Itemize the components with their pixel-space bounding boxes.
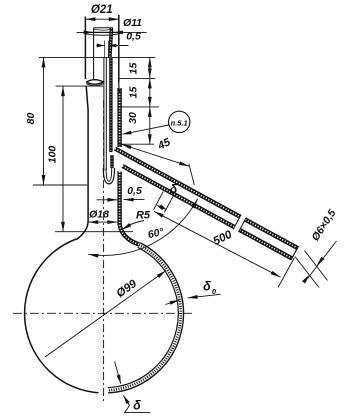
delta bottom arrow from above: [117, 375, 121, 384]
extension line at socket shoulder y=57: [39, 56, 155, 58]
socket top rim ellipse: [85, 34, 118, 35]
svg-text:15: 15: [128, 63, 140, 75]
svg-text:п.5.1: п.5.1: [171, 119, 188, 128]
side tube end face: [291, 246, 299, 260]
svg-text:Ø11: Ø11: [123, 17, 142, 29]
extension line y=144: [118, 143, 155, 145]
side tube lower wall (hatched), before break: [122, 166, 234, 227]
svg-text:δ: δ: [203, 280, 211, 294]
extension line y=107: [119, 106, 160, 108]
svg-text:15: 15: [128, 87, 140, 99]
arrow 500 left: [154, 211, 164, 217]
side tube upper wall (hatched), after break: [245, 220, 297, 248]
arrow 0,5 left: [97, 44, 105, 48]
delta bottom extension line: [115, 362, 121, 384]
arrow 45 left: [122, 144, 132, 149]
leader delta0 right: [188, 294, 221, 298]
delta arrow left: [156, 205, 164, 211]
inner tube lower right wall (hatched): [109, 57, 112, 152]
inner tube upper left wall: [93, 28, 95, 79]
dim line phi21: [85, 18, 118, 20]
hidden narrow tube wall left: [104, 41, 106, 58]
leader line p.5.1: [125, 125, 169, 134]
socket outer wall right: [118, 15, 120, 82]
arrow phi99: [157, 271, 166, 279]
inner tube top rim ellipse: [94, 29, 113, 30]
dim tail phi11 left: [77, 31, 94, 33]
delta extension line 1: [154, 192, 164, 210]
arrow 15 second top: [148, 78, 152, 88]
arrow 0,5 neck: [124, 198, 134, 202]
extension line y=232: [55, 231, 133, 233]
arrow 80 top: [42, 57, 46, 67]
arrow 60 arc top: [191, 199, 197, 209]
inner tube top rim: [94, 27, 113, 29]
socket bottom rim (lens): [86, 80, 103, 85]
svg-text:80: 80: [25, 113, 37, 125]
delta arrow right: [159, 204, 167, 210]
extension line 500 right: [278, 258, 295, 288]
flask bulb outline (left/bottom, outside view): [25, 239, 99, 393]
arrow 30 top: [148, 107, 152, 117]
arrow phi18 right: [107, 220, 117, 224]
leader delta0 left: [166, 300, 180, 305]
dim tail 0,5 right: [109, 45, 129, 47]
callout circle p.5.1: [169, 111, 190, 132]
phi6 extension line a: [295, 257, 319, 288]
svg-text:30: 30: [127, 112, 139, 124]
inner tube open bottom end (inner U): [106, 168, 112, 181]
phi6 dim line: [308, 241, 337, 279]
extension line 45 right (oblique): [189, 164, 194, 185]
arrow right at inner wall: [107, 198, 117, 202]
extension line y=78: [120, 77, 156, 79]
arrow phi18 left: [88, 220, 98, 224]
arrow 30 bottom: [148, 134, 152, 144]
phi6 extension line b: [305, 251, 328, 281]
svg-text:0,5: 0,5: [126, 31, 141, 43]
arrow delta0 left: [170, 300, 180, 305]
socket top rim: [85, 31, 118, 33]
phi6 arrow lower: [302, 275, 310, 284]
tube break edge 1: [233, 215, 241, 230]
arrow 0,5 right: [109, 44, 117, 48]
arrow p.5.1 leader: [122, 131, 132, 135]
socket outer wall left: [84, 17, 86, 80]
dim line phi18: [88, 221, 117, 223]
svg-text:Ø21: Ø21: [91, 4, 113, 16]
arrow R5: [122, 223, 132, 230]
neck right wall lower segment curving into bulb shoulder: [120, 172, 140, 245]
60 degree dimension arc: [88, 199, 197, 256]
arrow delta0 right: [188, 295, 198, 299]
leader 0,5 neck: [124, 199, 145, 201]
side tube lower wall (hatched), after break: [240, 230, 292, 259]
side tube upper wall (hatched), before break: [115, 149, 240, 217]
socket to neck transition right: [118, 82, 121, 92]
arrow 15 second bottom: [148, 97, 152, 107]
arrow 15 top: [148, 57, 152, 67]
extension line y=185: [33, 184, 87, 186]
arrow 500 right: [271, 271, 281, 277]
arrow line at neck inner wall: [97, 199, 118, 201]
svg-text:100: 100: [47, 146, 59, 164]
svg-text:0,5: 0,5: [127, 185, 142, 197]
arrow 80 bottom: [42, 175, 46, 185]
svg-text:R5: R5: [136, 210, 151, 222]
horizontal centerline of bulb: [13, 312, 193, 314]
neck left wall: [77, 86, 89, 239]
arrow 100 bottom: [61, 222, 65, 232]
svg-text:δ: δ: [170, 183, 178, 197]
extension line y=86: [56, 85, 104, 87]
vertical centerline of flask: [103, 100, 105, 402]
dim line 100: [62, 86, 64, 232]
arrow 15 first bottom: [148, 68, 152, 78]
arrow 45 right: [179, 161, 189, 166]
svg-text:Ø18: Ø18: [89, 209, 109, 221]
inner tube upper right wall (hatched, tapered): [110, 28, 112, 57]
dim line 80: [43, 57, 45, 185]
dim line 45: [122, 144, 190, 166]
tube break edge 2: [239, 217, 247, 232]
svg-text:δ: δ: [133, 399, 141, 413]
leader and shelf for delta bottom: [123, 395, 150, 412]
delta extension line 2: [164, 194, 174, 212]
dim line 500: [154, 211, 281, 277]
arrow phi11 right: [113, 31, 123, 35]
inner tube open bottom end (outer U): [103, 168, 114, 184]
socket bottom rim lower arc: [86, 84, 103, 86]
dim chain vertical line: [149, 57, 151, 144]
arrow 100 top: [61, 86, 65, 96]
delta bottom arrow from below: [123, 395, 129, 404]
inner tube lower left wall inner: [105, 57, 107, 170]
hidden narrow tube wall right: [108, 41, 110, 58]
phi6 arrow upper: [317, 257, 325, 266]
dim line phi99: [45, 271, 166, 358]
arrow phi11 left: [84, 31, 94, 35]
dim tail phi11 right: [113, 31, 147, 33]
arrow phi21 right: [109, 17, 119, 21]
arrow phi21 left: [85, 17, 95, 21]
arrow 60 arc bottom: [88, 254, 98, 258]
leader R5: [123, 221, 144, 230]
neck right wall upper segment (hatched): [117, 88, 121, 147]
inner tube right wall below junction: [110, 155, 113, 168]
inner tube lower left wall outer: [103, 57, 105, 171]
flask bulb wall in section (hatched band, right side): [108, 243, 183, 393]
dim tail 0,5 left: [97, 45, 105, 47]
